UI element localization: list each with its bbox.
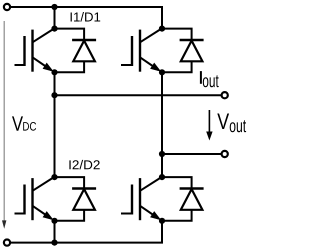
wire: top-right diode loop top [162, 29, 192, 40]
node: bottom-right collector [159, 174, 165, 180]
arrow: Vout reference arrow [208, 110, 210, 133]
wire: D2 loop top [55, 177, 85, 188]
wire: lower output rail to terminal [162, 153, 221, 155]
wire: D1 loop bottom [55, 61, 85, 72]
terminal: upper output [222, 92, 228, 98]
node: I1 emitter [51, 69, 57, 75]
IGBT bottom-right gate lead [121, 213, 132, 215]
terminal: DC+ input top-left [4, 4, 10, 10]
IGBT top-right gate bar [131, 36, 133, 66]
IGBT bottom-right [121, 177, 162, 220]
terminal: DC- input bottom-left [4, 240, 10, 246]
IGBT I1 body bar [31, 30, 33, 72]
node: top-right collector [159, 26, 165, 32]
IGBT top-right body bar [139, 30, 141, 72]
IGBT I2 emitter lead with arrow [33, 206, 52, 219]
node: I2 collector [51, 174, 57, 180]
wire: bottom-right diode loop bottom [162, 210, 192, 221]
label I1/D1 [71, 12, 101, 22]
wire: D1 loop top [55, 29, 85, 40]
diode D2 cathode bar [72, 187, 96, 189]
IGBT I1 collector lead [33, 29, 55, 43]
label VDC [12, 116, 23, 130]
IGBT bottom-right body bar [139, 178, 141, 220]
IGBT I1 (top-left) [15, 29, 55, 72]
wire: left leg bottom stub [54, 221, 56, 243]
IGBT I-topright [121, 29, 162, 72]
wire: top DC+ rail with corner down into right leg [10, 7, 162, 29]
node: bottom rail / left leg junction [51, 240, 57, 246]
IGBT I1 gate lead [15, 64, 25, 66]
wire: upper output rail to Iout terminal [55, 94, 222, 96]
diode D1 cathode bar [72, 39, 96, 41]
diode D1 triangle [73, 41, 95, 62]
label Iout [200, 71, 202, 84]
IGBT bottom-right gate bar [131, 185, 133, 215]
node: I1 collector [51, 26, 57, 32]
node: top rail / left leg junction [51, 4, 57, 10]
IGBT top-right gate lead [121, 64, 132, 66]
label Vout [217, 114, 229, 130]
arrow: VDC reference line [3, 21, 5, 222]
diode bottom-right cathode bar [180, 187, 204, 189]
IGBT I1 gate bar [23, 36, 25, 66]
node: left leg output tap [51, 92, 57, 98]
wire: D2 loop bottom [55, 210, 85, 221]
wire: left leg top stub [54, 7, 56, 29]
diode D2 triangle [73, 189, 95, 210]
wire: bottom DC- rail with corner up into right leg [10, 221, 162, 243]
IGBT I2 gate lead [15, 213, 25, 215]
IGBT I1 emitter lead with arrow [33, 57, 52, 70]
diode top-right cathode bar [180, 39, 204, 41]
wire: bottom-right diode loop top [162, 177, 192, 188]
terminal: lower output [222, 151, 228, 157]
IGBT bottom-right emitter lead with arrow [140, 206, 159, 219]
node: right leg output tap [159, 151, 165, 157]
label I2/D2 [69, 160, 99, 170]
IGBT top-right emitter lead with arrow [140, 57, 159, 70]
IGBT I2 gate bar [23, 185, 25, 215]
wire: left leg middle segment [54, 72, 56, 177]
diode bottom-right triangle [181, 189, 203, 210]
IGBT bottom-right collector lead [140, 177, 162, 191]
node: top-right emitter [159, 69, 165, 75]
wire: top-right diode loop bottom [162, 61, 192, 72]
IGBT I2 (bottom-left) [15, 177, 55, 220]
node: I2 emitter [51, 218, 57, 224]
IGBT top-right collector lead [140, 29, 162, 43]
IGBT I2 collector lead [33, 177, 55, 191]
node: bottom-right emitter [159, 218, 165, 224]
diode top-right triangle [181, 41, 203, 62]
IGBT I2 body bar [31, 178, 33, 220]
wire: right leg middle segment [161, 72, 163, 177]
